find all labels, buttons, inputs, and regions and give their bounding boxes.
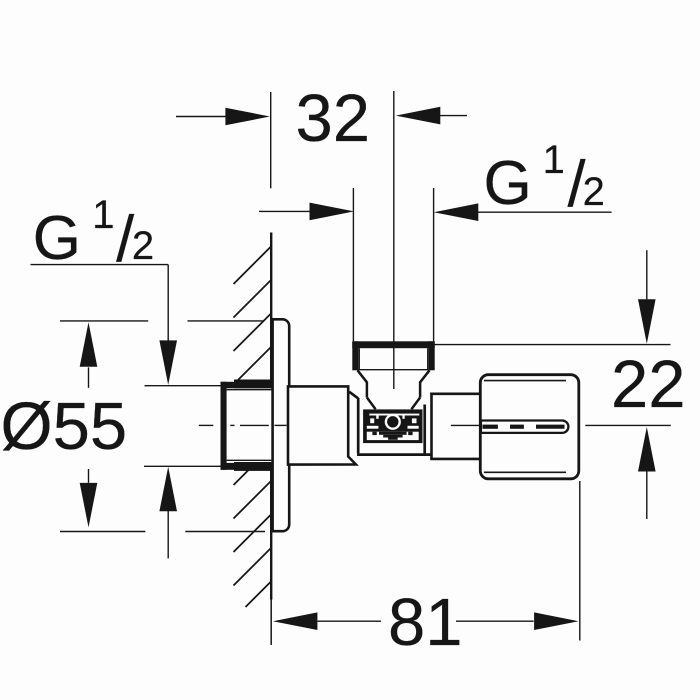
knob slot bbox=[481, 421, 569, 433]
centerline bbox=[199, 424, 671, 426]
outlet thread collar bbox=[352, 341, 434, 370]
knob outer bbox=[480, 375, 579, 479]
headwork dark box bbox=[363, 409, 422, 443]
dimension G1/2 left (leader + arrows) bbox=[31, 265, 222, 559]
rosette bbox=[273, 319, 290, 531]
dimension 81 bbox=[318, 481, 580, 641]
body cylinder bbox=[288, 386, 356, 464]
dimension 32 bbox=[176, 92, 467, 188]
body end cone bbox=[349, 392, 431, 455]
bonnet tube bbox=[430, 393, 481, 459]
dimension 22 bbox=[426, 250, 671, 519]
wall hatching bbox=[234, 247, 271, 607]
vertical outlet pipe lines (extension) bbox=[353, 91, 433, 389]
dimension diameter 55 bbox=[60, 321, 265, 532]
collar chamfers and neck bbox=[358, 370, 430, 409]
text labels bbox=[296, 85, 371, 152]
inlet thread pipe through wall bbox=[221, 380, 272, 471]
dimension G1/2 right bbox=[259, 210, 612, 213]
wall line bbox=[270, 233, 272, 600]
